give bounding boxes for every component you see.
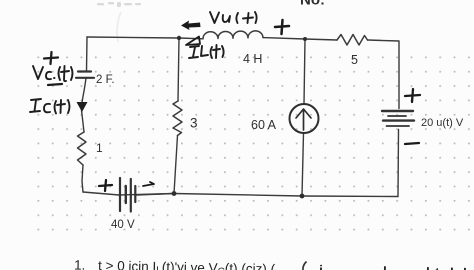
- svg-text:l: l: [426, 265, 430, 270]
- svg-text:i: i: [319, 263, 323, 270]
- svg-text:60 A: 60 A: [251, 118, 277, 132]
- svg-text:4 H: 4 H: [243, 52, 262, 66]
- svg-text:2 F.: 2 F.: [96, 74, 115, 86]
- svg-text:l.: l.: [463, 266, 471, 270]
- svg-text:20 u(t) V: 20 u(t) V: [421, 117, 464, 129]
- svg-text:40 V: 40 V: [111, 219, 135, 231]
- svg-text:1.: 1.: [74, 258, 86, 270]
- svg-text:3: 3: [190, 116, 198, 131]
- svg-text:1: 1: [96, 141, 103, 155]
- svg-text:l: l: [383, 264, 387, 270]
- svg-text:5: 5: [351, 53, 358, 67]
- svg-text:t: t: [435, 265, 440, 270]
- svg-text:No:: No:: [300, 0, 325, 9]
- svg-text:b: b: [450, 265, 459, 270]
